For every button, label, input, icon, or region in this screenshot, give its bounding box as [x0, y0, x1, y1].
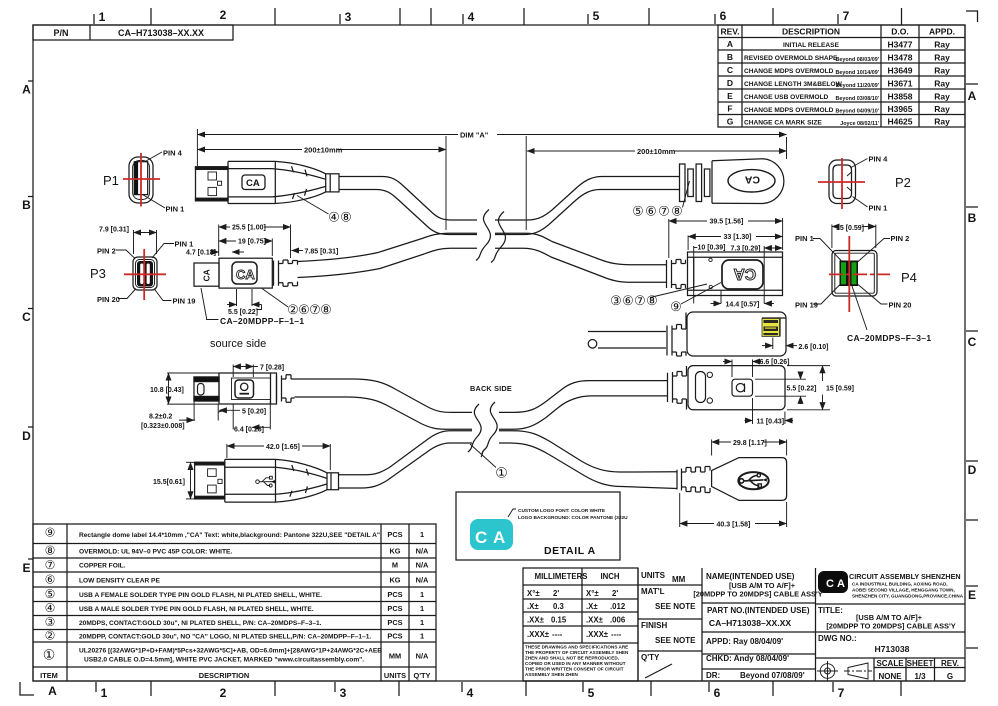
svg-text:PIN 20: PIN 20 — [889, 301, 912, 310]
svg-text:PCS: PCS — [387, 530, 402, 539]
svg-text:42.0 [1.65]: 42.0 [1.65] — [266, 444, 300, 451]
svg-text:----: ---- — [611, 630, 622, 639]
svg-text:D: D — [968, 463, 977, 477]
svg-text:Joyce 08/02/11': Joyce 08/02/11' — [840, 121, 879, 127]
svg-text:INITIAL RELEASE: INITIAL RELEASE — [783, 42, 840, 49]
svg-text:Beyond 04/09/10': Beyond 04/09/10' — [835, 109, 879, 115]
svg-text:CHANGE MDPS OVERMOLD: CHANGE MDPS OVERMOLD — [744, 68, 834, 75]
svg-text:11 [0.43]: 11 [0.43] — [757, 419, 785, 426]
svg-text:N/A: N/A — [416, 576, 429, 585]
svg-text:6.4 [0.25]: 6.4 [0.25] — [234, 427, 264, 434]
svg-text:Ray: Ray — [934, 53, 950, 63]
svg-text:MILLIMETERS: MILLIMETERS — [535, 572, 588, 581]
svg-text:2.6 [0.10]: 2.6 [0.10] — [799, 344, 829, 351]
svg-text:③: ③ — [45, 615, 56, 629]
svg-text:[20MDPP TO 20MDPS] CABLE ASS'Y: [20MDPP TO 20MDPS] CABLE ASS'Y — [693, 590, 822, 599]
svg-text:5.5 [0.22]: 5.5 [0.22] — [228, 309, 258, 316]
svg-text:2': 2' — [612, 589, 618, 598]
svg-text:PCS: PCS — [387, 604, 402, 613]
svg-text:1: 1 — [420, 590, 424, 599]
svg-text:A: A — [493, 528, 505, 547]
svg-text:0.15: 0.15 — [551, 616, 567, 625]
svg-text:CA: CA — [236, 267, 255, 282]
svg-text:THESE DRAWINGS AND SPECIFICATI: THESE DRAWINGS AND SPECIFICATIONS ARE — [525, 645, 628, 650]
svg-text:A: A — [727, 39, 733, 49]
svg-text:.XX±: .XX± — [586, 616, 604, 625]
svg-text:6: 6 — [714, 686, 721, 700]
svg-text:USB2.0 CABLE O.D=4.5mm], WHITE: USB2.0 CABLE O.D=4.5mm], WHITE PVC JACKE… — [84, 657, 364, 664]
svg-text:⑧: ⑧ — [45, 544, 56, 558]
svg-text:10 [0.39]: 10 [0.39] — [698, 245, 726, 252]
svg-text:1: 1 — [420, 632, 424, 641]
svg-text:H4625: H4625 — [887, 117, 912, 127]
svg-text:Beyond 07/08/09': Beyond 07/08/09' — [740, 671, 805, 680]
svg-text:Ray: Ray — [934, 104, 950, 114]
svg-text:4: 4 — [468, 10, 475, 24]
svg-text:TITLE:: TITLE: — [818, 606, 843, 615]
svg-text:MM: MM — [672, 575, 686, 584]
svg-text:FINISH: FINISH — [641, 621, 667, 630]
svg-text:ITEM: ITEM — [40, 671, 58, 680]
svg-text:BACK SIDE: BACK SIDE — [470, 384, 512, 393]
svg-text:UL20276 [(32AWG*1P+D+FAM)*5Pcs: UL20276 [(32AWG*1P+D+FAM)*5Pcs+32AWG*5C]… — [79, 648, 382, 655]
svg-text:DESCRIPTION: DESCRIPTION — [199, 671, 250, 680]
svg-text:PCS: PCS — [387, 590, 402, 599]
svg-text:NONE: NONE — [878, 672, 902, 681]
svg-text:D: D — [22, 429, 31, 443]
svg-text:SHENZHEN CITY, GUANGDONG,PROVI: SHENZHEN CITY, GUANGDONG,PROVINCE,CHINA — [852, 594, 964, 599]
svg-text:CHANGE MDPS OVERMOLD: CHANGE MDPS OVERMOLD — [744, 107, 834, 114]
svg-text:CA INDUSTRIAL BUILDING, AOXING: CA INDUSTRIAL BUILDING, AOXING ROAD, — [852, 582, 948, 587]
svg-text:G: G — [947, 672, 953, 681]
svg-text:CA–20MDPS–F–3–1: CA–20MDPS–F–3–1 — [847, 333, 931, 343]
svg-text:REV.: REV. — [941, 659, 959, 668]
svg-text:10.8 [0.43]: 10.8 [0.43] — [150, 387, 184, 394]
svg-text:⑧: ⑧ — [646, 293, 658, 308]
svg-text:2': 2' — [553, 589, 559, 598]
svg-text:②: ② — [45, 629, 56, 643]
svg-text:H3671: H3671 — [887, 79, 912, 89]
svg-text:⑨: ⑨ — [670, 299, 682, 314]
svg-text:⑦: ⑦ — [45, 558, 56, 572]
svg-text:Beyond 10/14/09': Beyond 10/14/09' — [835, 70, 879, 76]
svg-text:USB A MALE SOLDER TYPE PIN GOL: USB A MALE SOLDER TYPE PIN GOLD FLASH, N… — [79, 606, 314, 613]
svg-text:Ray: Ray — [934, 92, 950, 102]
svg-text:2: 2 — [220, 8, 227, 22]
svg-text:KG: KG — [389, 547, 400, 556]
svg-text:7.85 [0.31]: 7.85 [0.31] — [305, 249, 339, 256]
svg-text:6: 6 — [720, 9, 727, 23]
svg-text:Beyond 08/03/09': Beyond 08/03/09' — [835, 57, 879, 63]
svg-text:⑤: ⑤ — [45, 587, 56, 601]
svg-text:C: C — [727, 65, 733, 75]
svg-text:C: C — [826, 578, 834, 590]
svg-text:A: A — [22, 83, 31, 97]
svg-text:H3478: H3478 — [887, 53, 912, 63]
svg-text:SEE NOTE: SEE NOTE — [655, 602, 696, 611]
svg-text:4.7 [0.18]: 4.7 [0.18] — [186, 250, 216, 257]
svg-text:ASSEMBLY SHEN ZHEN: ASSEMBLY SHEN ZHEN — [525, 672, 579, 677]
svg-text:THE PROPERTY OF CIRCUIT ASSEMB: THE PROPERTY OF CIRCUIT ASSEMBLY SHEN — [525, 650, 629, 655]
svg-text:.X±: .X± — [586, 602, 598, 611]
svg-text:REV.: REV. — [720, 27, 739, 37]
svg-text:PIN 4: PIN 4 — [163, 149, 183, 158]
svg-text:H3858: H3858 — [887, 92, 912, 102]
svg-text:ZHEN AND SHALL NOT BE REPRODUC: ZHEN AND SHALL NOT BE REPRODUCED, — [525, 656, 619, 661]
svg-text:A: A — [837, 578, 845, 590]
svg-text:PIN 4: PIN 4 — [869, 155, 889, 164]
svg-text:PIN 1: PIN 1 — [795, 234, 814, 243]
svg-text:D.O.: D.O. — [891, 27, 908, 37]
svg-text:⑧: ⑧ — [671, 204, 683, 219]
svg-text:⑥: ⑥ — [622, 293, 634, 308]
svg-text:1: 1 — [420, 604, 424, 613]
svg-text:4: 4 — [467, 686, 474, 700]
svg-text:C: C — [968, 335, 977, 349]
svg-text:⑥: ⑥ — [45, 573, 56, 587]
svg-text:P2: P2 — [895, 175, 911, 190]
svg-text:5 [0.20]: 5 [0.20] — [242, 409, 266, 416]
svg-text:3: 3 — [345, 10, 352, 24]
svg-text:H3649: H3649 — [887, 66, 912, 76]
svg-text:PART NO.(INTENDED USE): PART NO.(INTENDED USE) — [707, 606, 810, 615]
svg-text:⑨: ⑨ — [45, 526, 56, 540]
svg-text:CA–H713038–XX.XX: CA–H713038–XX.XX — [118, 28, 204, 38]
svg-text:PIN 1: PIN 1 — [166, 205, 185, 214]
svg-text:CIRCUIT ASSEMBLY SHENZHEN: CIRCUIT ASSEMBLY SHENZHEN — [849, 572, 961, 581]
svg-text:33 [1.30]: 33 [1.30] — [724, 234, 752, 241]
svg-text:20MDPP, CONTACT:GOLD 30u", NO: 20MDPP, CONTACT:GOLD 30u", NO "CA" LOGO,… — [79, 634, 371, 641]
svg-text:6.6 [0.26]: 6.6 [0.26] — [760, 359, 790, 366]
svg-text:CA: CA — [246, 178, 260, 189]
svg-text:UNITS: UNITS — [641, 571, 666, 580]
svg-text:SEE NOTE: SEE NOTE — [655, 636, 696, 645]
svg-text:source side: source side — [210, 338, 266, 350]
svg-text:X°±: X°± — [527, 589, 540, 598]
svg-text:NAME(INTENDED USE): NAME(INTENDED USE) — [706, 572, 795, 581]
svg-text:Beyond 03/08/10': Beyond 03/08/10' — [835, 96, 879, 102]
svg-text:H3965: H3965 — [887, 104, 912, 114]
svg-text:SHEET: SHEET — [907, 659, 934, 668]
svg-text:⑦: ⑦ — [634, 293, 646, 308]
svg-text:A: A — [48, 684, 57, 698]
svg-text:DETAIL A: DETAIL A — [544, 545, 596, 557]
svg-text:①: ① — [43, 647, 56, 663]
svg-text:29.8 [1.17]: 29.8 [1.17] — [733, 440, 767, 447]
svg-text:CA–20MDPP–F–1–1: CA–20MDPP–F–1–1 — [220, 316, 304, 326]
svg-text:A: A — [968, 89, 977, 103]
svg-text:P3: P3 — [90, 266, 106, 281]
svg-text:----: ---- — [552, 630, 563, 639]
svg-text:COPPER FOIL.: COPPER FOIL. — [79, 563, 126, 570]
svg-text:200±10mm: 200±10mm — [304, 146, 343, 155]
svg-text:7.9 [0.31]: 7.9 [0.31] — [99, 227, 129, 234]
svg-text:PCS: PCS — [387, 632, 402, 641]
svg-text:CA: CA — [202, 269, 212, 281]
svg-text:1: 1 — [420, 530, 424, 539]
svg-text:④: ④ — [328, 210, 340, 225]
svg-text:THE PRIOR WRITTEN CONSENT OF C: THE PRIOR WRITTEN CONSENT OF CIRCUIT — [525, 667, 624, 672]
svg-text:CHANGE LENGTH 3M&BELOW: CHANGE LENGTH 3M&BELOW — [744, 81, 843, 88]
svg-text:UNITS: UNITS — [384, 671, 406, 680]
svg-text:PIN 19: PIN 19 — [173, 297, 196, 306]
svg-text:DR:: DR: — [706, 671, 720, 680]
svg-text:INCH: INCH — [600, 572, 619, 581]
svg-text:E: E — [968, 588, 976, 602]
svg-text:1: 1 — [420, 618, 424, 627]
svg-text:⑦: ⑦ — [309, 302, 321, 317]
svg-text:⑥: ⑥ — [298, 302, 310, 317]
svg-text:Beyond 11/20/09': Beyond 11/20/09' — [836, 83, 879, 89]
svg-text:SCALE: SCALE — [876, 659, 904, 668]
svg-text:USB A FEMALE SOLDER TYPE PIN G: USB A FEMALE SOLDER TYPE PIN GOLD FLASH,… — [79, 592, 322, 599]
svg-text:PIN 19: PIN 19 — [795, 301, 818, 310]
svg-text:8.2±0.2: 8.2±0.2 — [149, 414, 172, 421]
svg-text:40.3 [1.58]: 40.3 [1.58] — [717, 522, 751, 529]
svg-text:AOBEI SECOND VILLAGE, HENGGANG: AOBEI SECOND VILLAGE, HENGGANG TOWN, — [852, 588, 955, 593]
svg-text:E: E — [727, 91, 733, 101]
svg-text:KG: KG — [389, 576, 400, 585]
svg-text:2: 2 — [220, 686, 227, 700]
svg-text:N/A: N/A — [416, 561, 429, 570]
svg-text:DWG NO.:: DWG NO.: — [818, 634, 857, 643]
svg-text:5.5 [0.22]: 5.5 [0.22] — [787, 386, 817, 393]
svg-text:39.5 [1.56]: 39.5 [1.56] — [710, 219, 744, 226]
svg-text:P4: P4 — [901, 270, 917, 285]
svg-text:.XX±: .XX± — [527, 616, 545, 625]
svg-text:CA–H713038–XX.XX: CA–H713038–XX.XX — [709, 618, 791, 628]
svg-text:PIN 2: PIN 2 — [891, 234, 910, 243]
svg-text:20MDPS, CONTACT:GOLD 30u", NI: 20MDPS, CONTACT:GOLD 30u", NI PLATED SHE… — [79, 620, 322, 627]
svg-text:P1: P1 — [103, 173, 119, 188]
svg-text:1/3: 1/3 — [914, 672, 926, 681]
svg-text:19 [0.75]: 19 [0.75] — [238, 239, 266, 246]
svg-text:.XXX±: .XXX± — [527, 630, 550, 639]
svg-text:PIN 2: PIN 2 — [97, 247, 116, 256]
svg-text:REVISED OVERMOLD SHAPE: REVISED OVERMOLD SHAPE — [744, 55, 838, 62]
svg-text:②: ② — [287, 302, 299, 317]
svg-text:[20MDPP TO 20MDPS] CABLE ASS'Y: [20MDPP TO 20MDPS] CABLE ASS'Y — [826, 622, 955, 631]
svg-text:14.4 [0.57]: 14.4 [0.57] — [726, 302, 760, 309]
svg-text:H3477: H3477 — [887, 40, 912, 50]
svg-text:Q'TY: Q'TY — [414, 671, 431, 680]
svg-text:APPD: Ray 08/04/09': APPD: Ray 08/04/09' — [706, 637, 783, 646]
svg-text:200±10mm: 200±10mm — [637, 147, 676, 156]
svg-text:1: 1 — [99, 10, 106, 24]
svg-text:E: E — [22, 561, 30, 575]
svg-text:5: 5 — [593, 9, 600, 23]
svg-text:PCS: PCS — [387, 618, 402, 627]
svg-text:7: 7 — [838, 686, 845, 700]
svg-text:15 [0.59]: 15 [0.59] — [836, 225, 864, 232]
svg-text:H713038: H713038 — [875, 644, 910, 654]
svg-text:COPIED OR USED IN ANY MANNER W: COPIED OR USED IN ANY MANNER WITHOUT — [525, 661, 626, 666]
svg-text:G: G — [727, 117, 734, 127]
svg-text:CHKD: Andy 08/04/09': CHKD: Andy 08/04/09' — [706, 654, 789, 663]
svg-text:⑧: ⑧ — [340, 210, 352, 225]
svg-text:③: ③ — [610, 293, 622, 308]
svg-text:CHANGE CA MARK SIZE: CHANGE CA MARK SIZE — [744, 120, 822, 127]
svg-text:Ray: Ray — [934, 117, 950, 127]
svg-text:Ray: Ray — [934, 40, 950, 50]
svg-text:15.5[0.61]: 15.5[0.61] — [153, 479, 185, 486]
svg-text:C: C — [22, 310, 31, 324]
svg-text:25.5 [1.00]: 25.5 [1.00] — [232, 225, 266, 232]
svg-text:⑤: ⑤ — [632, 204, 644, 219]
svg-text:⑧: ⑧ — [320, 302, 332, 317]
svg-text:7: 7 — [843, 9, 850, 23]
svg-text:M: M — [392, 561, 398, 570]
svg-text:Ray: Ray — [934, 79, 950, 89]
svg-text:⑦: ⑦ — [658, 204, 670, 219]
svg-text:15 [0.59]: 15 [0.59] — [826, 386, 854, 393]
svg-text:D: D — [727, 78, 733, 88]
svg-text:APPD.: APPD. — [929, 27, 955, 37]
svg-text:Q'TY: Q'TY — [641, 653, 660, 662]
svg-text:DESCRIPTION: DESCRIPTION — [782, 27, 840, 37]
svg-text:PIN 1: PIN 1 — [869, 204, 888, 213]
svg-text:Ray: Ray — [934, 66, 950, 76]
svg-text:OVERMOLD: UL 94V–0 PVC 45P COL: OVERMOLD: UL 94V–0 PVC 45P COLOR: WHITE. — [79, 549, 232, 556]
svg-text:.XXX±: .XXX± — [586, 630, 609, 639]
svg-text:F: F — [727, 104, 732, 114]
svg-text:CA: CA — [734, 265, 756, 282]
svg-text:1: 1 — [101, 686, 108, 700]
svg-text:7.3 [0.29]: 7.3 [0.29] — [731, 246, 761, 253]
svg-text:.X±: .X± — [527, 602, 539, 611]
svg-text:CA: CA — [744, 174, 760, 186]
svg-text:MM: MM — [389, 652, 401, 661]
svg-text:.012: .012 — [610, 602, 626, 611]
svg-text:.006: .006 — [610, 616, 626, 625]
svg-text:Rectangle dome label 14.4*10mm: Rectangle dome label 14.4*10mm ,"CA" Tex… — [79, 532, 380, 539]
svg-text:B: B — [22, 198, 31, 212]
svg-text:⑥: ⑥ — [645, 204, 657, 219]
svg-text:PIN 20: PIN 20 — [97, 295, 120, 304]
svg-text:N/A: N/A — [416, 652, 429, 661]
svg-text:B: B — [727, 52, 733, 62]
svg-text:LOW DENSITY CLEAR PE: LOW DENSITY CLEAR PE — [79, 578, 160, 585]
svg-text:N/A: N/A — [416, 547, 429, 556]
svg-text:P/N: P/N — [53, 28, 68, 38]
svg-text:MAT'L: MAT'L — [641, 587, 665, 596]
svg-text:CUSTOM LOGO FONT: COLOR WHITE: CUSTOM LOGO FONT: COLOR WHITE — [518, 508, 606, 514]
svg-text:DIM "A": DIM "A" — [460, 131, 489, 140]
svg-text:X°±: X°± — [586, 589, 599, 598]
svg-text:B: B — [968, 211, 977, 225]
svg-text:①: ① — [495, 465, 508, 481]
svg-text:CHANGE USB OVERMOLD: CHANGE USB OVERMOLD — [744, 94, 828, 101]
svg-text:PIN 1: PIN 1 — [175, 240, 194, 249]
svg-text:7 [0.28]: 7 [0.28] — [260, 365, 284, 372]
svg-text:3: 3 — [340, 686, 347, 700]
svg-text:LOGO BACKGROUND: COLOR PANTONE: LOGO BACKGROUND: COLOR PANTONE (322U — [518, 515, 628, 521]
svg-text:C: C — [475, 528, 487, 547]
svg-text:④: ④ — [45, 601, 56, 615]
svg-text:[0.323±0.008]: [0.323±0.008] — [141, 423, 185, 430]
svg-text:5: 5 — [588, 686, 595, 700]
svg-text:0.3: 0.3 — [553, 602, 565, 611]
